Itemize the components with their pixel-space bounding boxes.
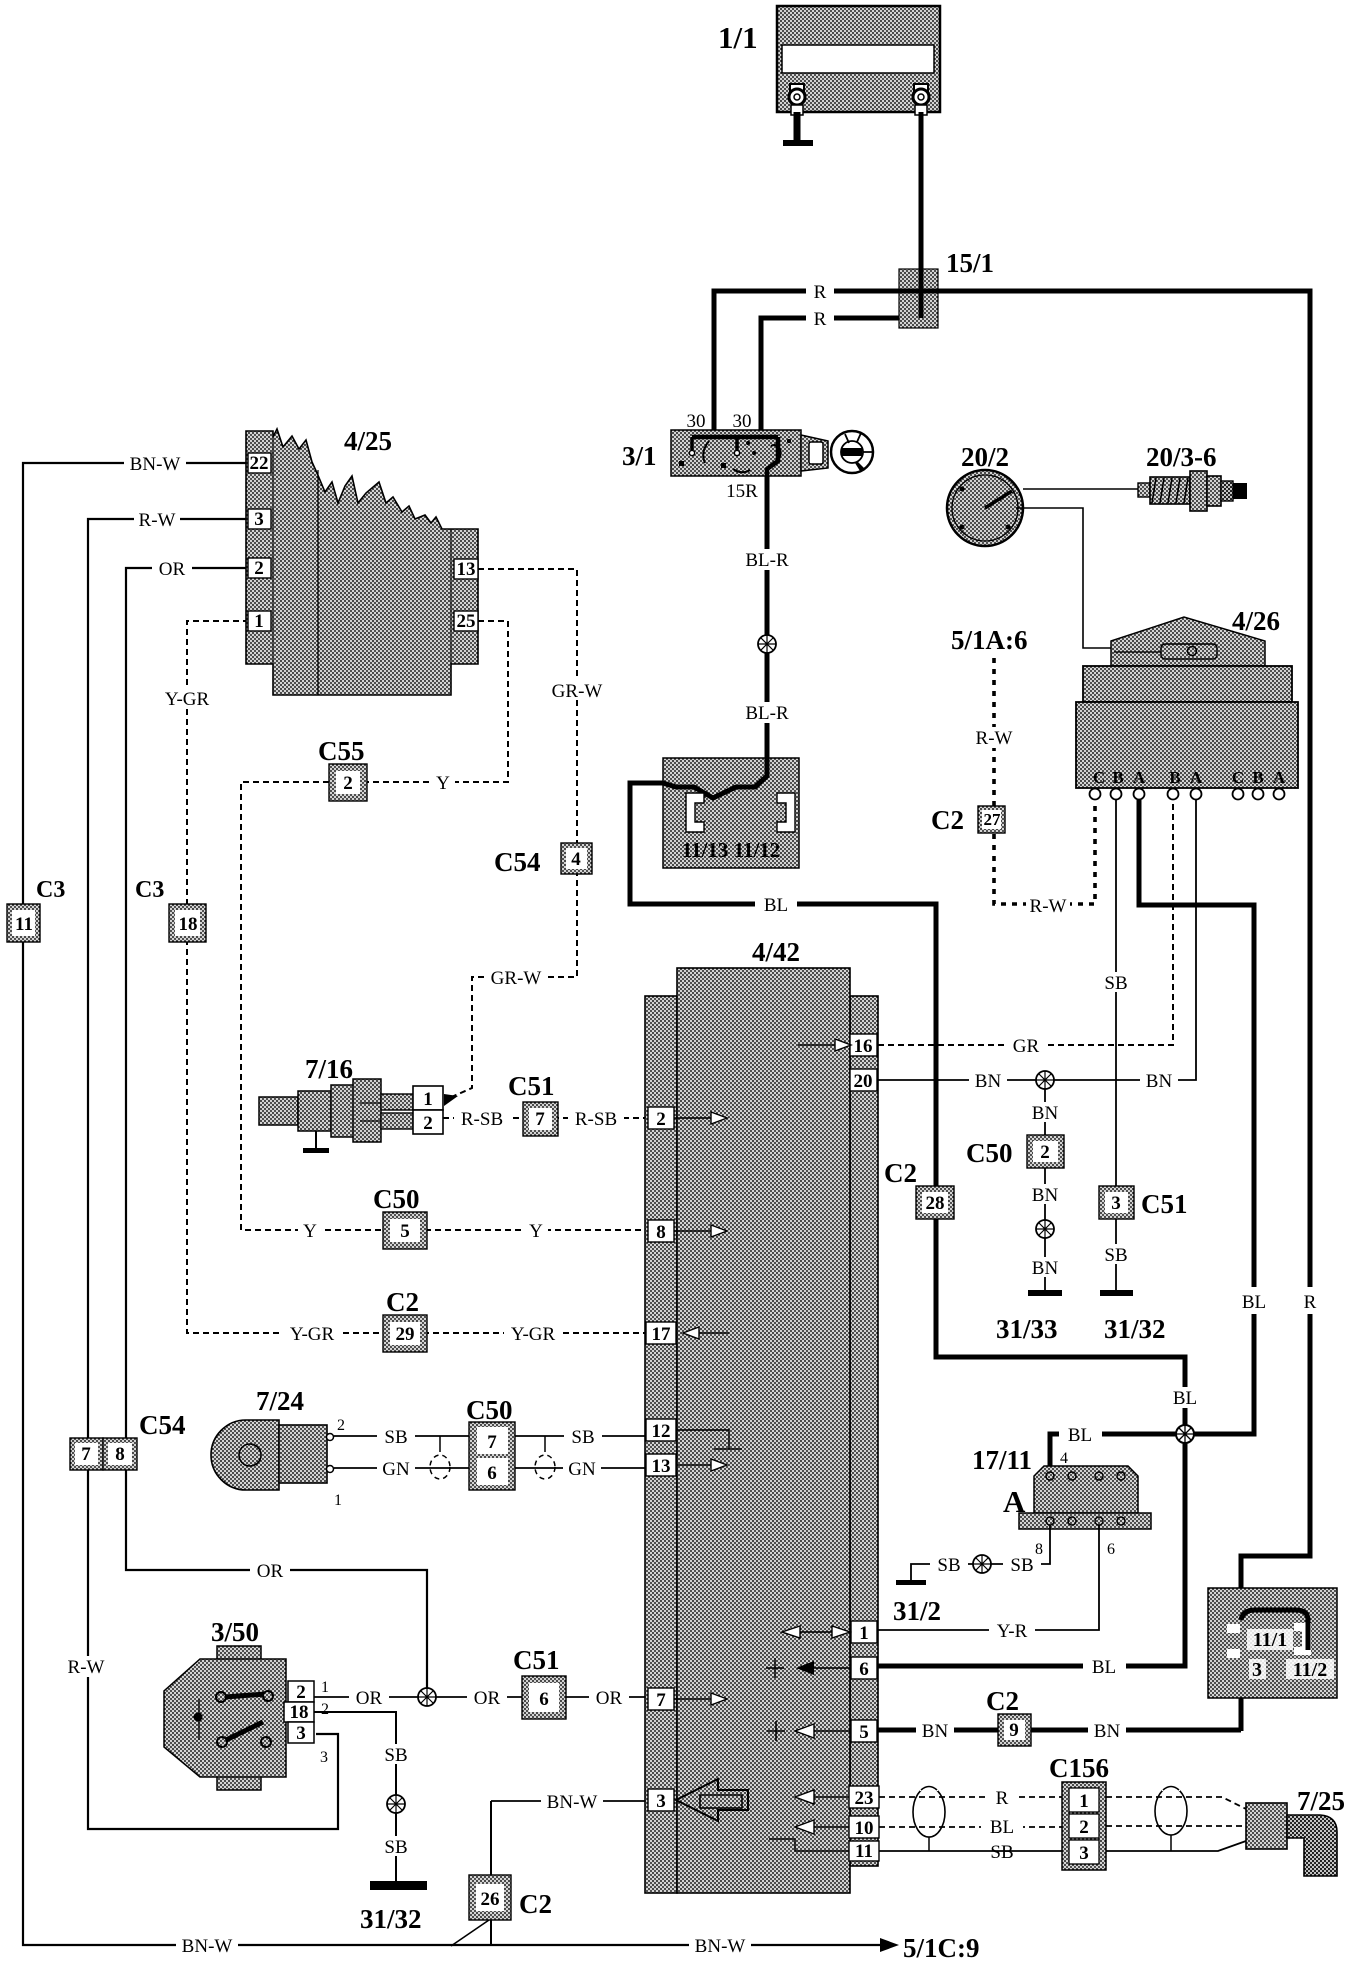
svg-text:1: 1: [321, 1679, 329, 1696]
svg-text:BL: BL: [990, 1817, 1014, 1838]
connector C2 pin 26: [451, 1801, 511, 1946]
wire segments visible through 15/1: [899, 269, 938, 318]
junction crimp on OR: [418, 1688, 436, 1706]
pin 13 of 4/42: [646, 1454, 676, 1477]
svg-text:11: 11: [855, 1841, 873, 1862]
svg-text:30: 30: [687, 411, 706, 432]
wire R dashed from C156 to 7/25: [1106, 1797, 1246, 1809]
svg-text:R-W: R-W: [139, 510, 176, 531]
distributor terminal B: [1111, 789, 1122, 800]
wire BL from junction down to 4/42 pin 6: [878, 1443, 1185, 1666]
value label SB: [983, 1842, 1021, 1863]
svg-text:27: 27: [984, 810, 1002, 829]
value label Y-R: [989, 1620, 1035, 1642]
value label GR-W on horizontal: [487, 967, 545, 989]
key symbol: [831, 431, 873, 473]
svg-text:5: 5: [859, 1722, 869, 1743]
svg-text:31/32: 31/32: [1104, 1314, 1166, 1344]
shield symbol right of C156: [1155, 1783, 1187, 1851]
wire GR-W dashed from 4/25 pin 13 via C54 pin 4 to 7/16 pin 1: [447, 569, 577, 1099]
svg-text:SB: SB: [384, 1837, 407, 1858]
wire BL-R from 3/1 15R to ignition coil: [765, 476, 770, 760]
wire BL thick from distributor terminal A down right side (net BL): [1050, 800, 1254, 1466]
svg-text:4: 4: [571, 849, 581, 870]
connector C54 pin 7: [70, 1438, 103, 1470]
svg-text:SB: SB: [384, 1427, 407, 1448]
svg-text:15R: 15R: [726, 481, 758, 502]
value label BL: [1163, 1387, 1206, 1409]
svg-text:31/2: 31/2: [893, 1596, 941, 1626]
svg-text:R: R: [814, 309, 827, 330]
svg-text:4/26: 4/26: [1232, 606, 1280, 636]
svg-text:C: C: [1232, 768, 1244, 787]
svg-text:OR: OR: [257, 1561, 284, 1582]
svg-text:B: B: [1169, 768, 1180, 787]
block arrow at pin 3: [676, 1779, 748, 1821]
pin 2 of 4/25: [248, 558, 271, 579]
pin 8 of 4/42: [648, 1220, 674, 1243]
suppressor connector 7/25: [1246, 1803, 1337, 1876]
distributor terminal B2: [1168, 789, 1179, 800]
svg-text:OR: OR: [356, 1688, 383, 1709]
svg-text:11: 11: [15, 914, 33, 935]
svg-text:23: 23: [855, 1788, 874, 1809]
value label BN: [969, 1070, 1007, 1092]
svg-text:2: 2: [337, 1417, 345, 1434]
connector C51 pin 7: [523, 1102, 558, 1136]
temperature gauge 20/2: [947, 470, 1023, 546]
double arrow at pin 1: [800, 1631, 832, 1633]
svg-text:Y-GR: Y-GR: [511, 1324, 556, 1345]
pin 12 of 4/42: [646, 1419, 676, 1442]
svg-text:1: 1: [1079, 1791, 1089, 1812]
svg-text:R-SB: R-SB: [575, 1109, 617, 1130]
pin 10 of 4/42: [849, 1816, 879, 1839]
value label GR-W on vertical: [548, 680, 606, 702]
value label BN: [916, 1720, 954, 1742]
ground (battery): [783, 140, 813, 146]
svg-text:22: 22: [250, 453, 269, 474]
svg-text:BN: BN: [975, 1071, 1002, 1092]
svg-text:3: 3: [296, 1723, 306, 1744]
pin 1 of 7/16: [413, 1086, 443, 1110]
pin 6 of 4/42: [851, 1657, 877, 1680]
arrow at pin 8: [674, 1230, 711, 1232]
relay 17/11: [1019, 1466, 1151, 1529]
svg-text:BL: BL: [764, 895, 788, 916]
value label SB: [1003, 1554, 1041, 1576]
ground 31/2: [896, 1580, 926, 1585]
ignition coils 11/13 11/12: [663, 758, 799, 868]
arrow at pin 23: [814, 1796, 849, 1798]
svg-text:2: 2: [1040, 1142, 1050, 1163]
value label SB: [377, 1426, 415, 1448]
svg-text:7/16: 7/16: [305, 1054, 353, 1084]
svg-text:15/1: 15/1: [946, 248, 994, 278]
shield symbol right of C50: [544, 1436, 546, 1452]
value label BL on horizontal to relay: [1059, 1424, 1102, 1446]
svg-text:GR-W: GR-W: [491, 968, 542, 989]
pin 22 of 4/25: [248, 453, 271, 474]
connector C50 pins 7 and 6: [469, 1422, 515, 1490]
pin 2 of 7/16: [413, 1110, 443, 1134]
distributor terminal B3: [1253, 789, 1264, 800]
svg-text:SB: SB: [1104, 1245, 1127, 1266]
value label Y right of C50 5: [524, 1220, 548, 1242]
svg-text:3: 3: [1079, 1843, 1089, 1864]
value label BL on right vertical: [1232, 1287, 1276, 1314]
svg-text:25: 25: [457, 611, 476, 632]
svg-text:8: 8: [115, 1444, 125, 1465]
value label BL-R: [740, 702, 794, 724]
wire SB from relay pin 8 to ground 31/2: [911, 1525, 1050, 1580]
ecu 4/42: [645, 968, 878, 1893]
pin 5 of 4/42: [851, 1720, 877, 1743]
connector C54 pin 8: [103, 1438, 137, 1470]
svg-text:GR: GR: [1013, 1036, 1040, 1057]
svg-text:C50: C50: [966, 1138, 1013, 1168]
pin 16 of 4/42: [850, 1034, 877, 1057]
svg-text:5/1C:9: 5/1C:9: [903, 1933, 980, 1963]
wire GR dashed from 4/42 pin 16 to distributor terminal B2: [878, 800, 1173, 1045]
svg-text:R: R: [996, 1788, 1009, 1809]
svg-text:11/2: 11/2: [1293, 1659, 1327, 1681]
svg-text:26: 26: [481, 1889, 500, 1910]
svg-text:2: 2: [321, 1701, 329, 1718]
value label R: [806, 281, 834, 303]
distributor terminal A: [1134, 789, 1145, 800]
svg-text:6: 6: [859, 1659, 869, 1680]
value label R-SB: [454, 1108, 510, 1130]
svg-text:BN: BN: [922, 1721, 949, 1742]
svg-text:BN: BN: [1094, 1721, 1121, 1742]
wire battery positive to 15/1: [919, 112, 924, 318]
wire R from 15/1 right to right edge and down (net R): [930, 291, 1310, 1731]
svg-text:C2: C2: [986, 1686, 1019, 1716]
wire BL dashed from C156 to 7/25: [1106, 1825, 1246, 1827]
svg-text:17/11: 17/11: [972, 1445, 1032, 1475]
svg-text:9: 9: [1009, 1720, 1019, 1741]
arrow at pin 16: [798, 1044, 835, 1046]
ground 31/32 (left): [370, 1881, 427, 1890]
svg-text:BN: BN: [1032, 1103, 1059, 1124]
value label R-W on vertical: [62, 1656, 110, 1678]
value label R-W: [972, 727, 1016, 749]
svg-text:BN: BN: [1146, 1071, 1173, 1092]
svg-text:OR: OR: [474, 1688, 501, 1709]
value label R on right vertical: [1296, 1287, 1324, 1314]
svg-text:GR-W: GR-W: [552, 681, 603, 702]
svg-text:GN: GN: [382, 1459, 410, 1480]
power stage 7/24: [211, 1420, 334, 1490]
svg-text:6: 6: [487, 1463, 497, 1484]
svg-text:4: 4: [1060, 1450, 1068, 1467]
svg-text:A: A: [1190, 768, 1203, 787]
wire R elbow inside coil unit: [1241, 1610, 1308, 1650]
svg-text:6: 6: [539, 1689, 549, 1710]
wire BN-W from C2 26 to 4/42 pin 3: [491, 1800, 647, 1802]
svg-text:3/50: 3/50: [211, 1617, 259, 1647]
svg-text:8: 8: [656, 1222, 666, 1243]
wire R-SB dashed from 7/16 pin 2 to 4/42 pin 2: [443, 1117, 647, 1119]
pin 25 of 4/25: [454, 611, 478, 632]
svg-text:2: 2: [343, 773, 353, 794]
svg-text:C3: C3: [135, 877, 164, 903]
svg-text:Y: Y: [529, 1221, 543, 1242]
svg-text:1/1: 1/1: [718, 20, 758, 55]
wire R-W from 4/25 pin 3 down to 3/50 pin 3: [88, 519, 338, 1829]
svg-text:BN-W: BN-W: [130, 454, 181, 475]
value label Y near C55: [431, 772, 455, 794]
pin 3 of 3/50: [288, 1722, 314, 1744]
arrow at pin 2: [674, 1117, 711, 1119]
fuse box 15/1: [899, 269, 938, 328]
svg-text:16: 16: [854, 1036, 873, 1057]
symbol at pin 12: [676, 1430, 742, 1449]
svg-text:SB: SB: [1010, 1555, 1033, 1576]
connector C2 pin 29: [383, 1315, 427, 1352]
value label BN-W: [541, 1791, 603, 1813]
connector C3 pin 11: [7, 904, 40, 942]
svg-text:1: 1: [334, 1492, 342, 1509]
shield symbol left of C156: [913, 1783, 945, 1851]
svg-text:SB: SB: [937, 1555, 960, 1576]
connector C50 pin 2: [1027, 1135, 1064, 1168]
wire SB from 3/50 pin 18 to ground 31/32: [314, 1712, 396, 1882]
wire R-W dashed from 5/1A:6 via C2:27 to distributor terminal C: [994, 658, 1095, 904]
connector C156 pins 1 2 3: [1062, 1782, 1106, 1870]
value label SB: [1097, 1244, 1135, 1266]
value label SB: [930, 1554, 968, 1576]
value label BN: [1140, 1070, 1178, 1092]
svg-text:4/42: 4/42: [752, 937, 800, 967]
distributor terminal C3: [1233, 789, 1244, 800]
wire SB from 4/42 pin 11 to C156 pin 3: [879, 1850, 1064, 1852]
value label SB: [377, 1744, 415, 1766]
wire gauge to distributor: [1016, 508, 1114, 648]
wire gauge to spark plug: [1023, 488, 1140, 490]
wire Y dashed from 4/25 pin 25 via C55 to 4/42 pin 8: [241, 621, 647, 1230]
svg-text:BL-R: BL-R: [745, 703, 789, 724]
svg-text:BL: BL: [1068, 1425, 1092, 1446]
svg-text:7: 7: [81, 1444, 91, 1465]
wire OR from 3/50 pin 2 to 4/42 pin 7: [314, 1696, 647, 1698]
wire SB from C156 to 7/25: [1106, 1841, 1246, 1851]
wire GN from 7/24 pin 1 to 4/42 pin 13: [334, 1467, 647, 1469]
shield symbol left of C50: [439, 1436, 441, 1452]
value label GN: [563, 1458, 601, 1480]
svg-text:7: 7: [487, 1432, 497, 1453]
arrow at pin 13: [676, 1464, 711, 1466]
pin 3 of 4/42: [648, 1789, 674, 1812]
value label R-SB: [568, 1108, 624, 1130]
wire SB from distributor terminal B to ground 31/32: [1115, 800, 1117, 1292]
svg-text:SB: SB: [1104, 973, 1127, 994]
junction crimp on SB: [973, 1555, 991, 1573]
battery negative lead: [794, 112, 801, 140]
pin 20 of 4/42: [850, 1069, 877, 1092]
arrow at pin 6: [766, 1658, 851, 1678]
svg-text:Y-R: Y-R: [997, 1621, 1028, 1642]
wire BN-W from 4/25 pin 22 down left side and along bottom to 5/1C:9: [23, 463, 880, 1945]
ignition switch 3/1: [671, 430, 828, 476]
connector C54 pin 4: [561, 843, 592, 874]
svg-text:SB: SB: [384, 1745, 407, 1766]
wire R dashed from 4/42 pin 23 to C156 pin 1: [879, 1796, 1064, 1798]
value label Y-GR: [158, 688, 216, 710]
distributor 4/26: [1076, 617, 1298, 788]
value label BN-W bottom middle: [689, 1935, 751, 1957]
value label SB: [377, 1836, 415, 1858]
svg-text:C50: C50: [466, 1395, 513, 1425]
connector C2 pin 9: [998, 1714, 1031, 1746]
svg-text:3: 3: [320, 1749, 328, 1766]
svg-text:BL: BL: [1092, 1657, 1116, 1678]
svg-text:1: 1: [859, 1623, 869, 1644]
svg-text:BN-W: BN-W: [695, 1936, 746, 1957]
ecu 4/25: [246, 429, 478, 695]
svg-text:C54: C54: [139, 1410, 186, 1440]
wire BL from coil to 4/42 area (net BL): [630, 783, 1185, 1434]
wire BN from 4/42 pin 5 to coil unit: [878, 1728, 1241, 1733]
value label R-W: [1026, 896, 1070, 917]
svg-text:Y: Y: [436, 773, 450, 794]
ground 31/33: [1028, 1290, 1062, 1296]
svg-text:13: 13: [652, 1456, 671, 1477]
svg-text:SB: SB: [571, 1427, 594, 1448]
distributor terminal A2: [1191, 789, 1202, 800]
svg-text:BN-W: BN-W: [547, 1792, 598, 1813]
spark plug 20/3-6: [1138, 471, 1247, 511]
svg-text:C3: C3: [36, 877, 65, 903]
pin 13 of 4/25: [454, 559, 478, 580]
svg-text:BL: BL: [1242, 1292, 1266, 1313]
svg-text:C2: C2: [519, 1889, 552, 1919]
svg-text:C55: C55: [318, 736, 365, 766]
arrow to 5/1C:9: [880, 1938, 899, 1952]
svg-text:20: 20: [854, 1071, 873, 1092]
svg-text:BL: BL: [1173, 1388, 1197, 1409]
pin 18 of 3/50: [284, 1702, 314, 1723]
svg-text:30: 30: [733, 411, 752, 432]
svg-text:Y: Y: [303, 1221, 317, 1242]
wire Y-GR dashed from 4/25 pin 1 to 4/42 pin 17: [187, 621, 647, 1333]
svg-text:R-W: R-W: [976, 728, 1013, 749]
svg-text:12: 12: [652, 1421, 671, 1442]
svg-text:7/24: 7/24: [256, 1386, 304, 1416]
value label R-W: [134, 509, 180, 531]
svg-text:R: R: [1304, 1292, 1317, 1313]
value label Y-GR right of C2 29: [504, 1323, 562, 1345]
value label BL: [981, 1816, 1023, 1838]
svg-text:GN: GN: [568, 1459, 596, 1480]
value label SB: [564, 1426, 602, 1448]
arrow into 7/16 pin 1: [444, 1094, 458, 1106]
value label BL: [1083, 1656, 1126, 1678]
svg-text:31/32: 31/32: [360, 1904, 422, 1934]
svg-text:20/3-6: 20/3-6: [1146, 442, 1217, 472]
pin 7 of 4/42: [648, 1688, 674, 1711]
svg-text:C54: C54: [494, 847, 541, 877]
svg-text:13: 13: [457, 559, 476, 580]
svg-text:C51: C51: [508, 1071, 555, 1101]
value label Y left of C50 5: [298, 1220, 322, 1242]
svg-text:R-W: R-W: [68, 1657, 105, 1678]
pin 11 of 4/42: [849, 1841, 879, 1862]
svg-text:BL-R: BL-R: [745, 550, 789, 571]
value label R: [988, 1787, 1016, 1809]
temperature sensor 7/16: [259, 1079, 413, 1142]
value label OR: [467, 1687, 507, 1709]
svg-text:B: B: [1252, 768, 1263, 787]
svg-text:3: 3: [254, 509, 264, 530]
junction crimp on SB: [387, 1795, 405, 1813]
svg-text:17: 17: [652, 1324, 672, 1345]
connector C51 pin 6: [522, 1676, 566, 1719]
junction crimp BL: [1176, 1425, 1194, 1443]
connector C50 pin 5: [383, 1212, 427, 1249]
svg-text:OR: OR: [596, 1688, 623, 1709]
svg-text:C2: C2: [386, 1287, 419, 1317]
svg-text:2: 2: [1079, 1817, 1089, 1838]
value label BN: [1088, 1720, 1126, 1742]
wire R #2 from 15/1 to 3/1 terminal 30: [761, 318, 921, 437]
svg-text:3: 3: [656, 1791, 666, 1812]
svg-text:1: 1: [423, 1089, 433, 1110]
pin 2 of 3/50: [288, 1681, 314, 1703]
pin 3 of 4/25: [248, 509, 271, 530]
arrow at pin 5: [767, 1721, 851, 1741]
svg-text:C50: C50: [373, 1184, 420, 1214]
svg-text:18: 18: [179, 914, 198, 935]
svg-text:BN-W: BN-W: [182, 1936, 233, 1957]
svg-text:31/33: 31/33: [996, 1314, 1058, 1344]
svg-text:6: 6: [1107, 1541, 1115, 1558]
wire BN from 4/42 pin 20 to distributor terminal A2: [878, 800, 1196, 1080]
value label GN: [377, 1458, 415, 1480]
svg-text:7: 7: [656, 1690, 666, 1711]
svg-text:2: 2: [254, 558, 264, 579]
svg-text:Y-GR: Y-GR: [290, 1324, 335, 1345]
value label OR: [589, 1687, 629, 1709]
value label R: [806, 308, 834, 330]
wire BN from crimp down to ground 31/33: [1044, 1089, 1046, 1290]
pin 2 of 4/42: [648, 1107, 674, 1130]
wire R #1 from 15/1 to 3/1 terminal 30: [714, 291, 905, 437]
wire SB from 7/24 pin 2 to 4/42 pin 12: [334, 1435, 647, 1437]
svg-text:A: A: [1133, 768, 1146, 787]
ignition coil 11/1 11/2 unit: [1208, 1588, 1337, 1698]
svg-text:C156: C156: [1049, 1753, 1109, 1783]
value label SB: [1097, 972, 1135, 994]
svg-text:C51: C51: [1141, 1189, 1188, 1219]
svg-text:BN: BN: [1032, 1185, 1059, 1206]
svg-text:4/25: 4/25: [344, 426, 392, 456]
junction crimp on BN: [1036, 1071, 1054, 1089]
arrow at pin 7: [674, 1698, 711, 1700]
value label BN: [1026, 1257, 1064, 1279]
svg-text:C2: C2: [884, 1158, 917, 1188]
battery 1/1: [777, 6, 940, 115]
value label GR: [1006, 1035, 1046, 1057]
svg-text:R-SB: R-SB: [461, 1109, 503, 1130]
svg-text:5: 5: [400, 1221, 410, 1242]
connector C2 pin 28 on BL wire: [916, 1186, 954, 1219]
wire OR from 4/25 pin 2 down to starter inhibitor circuit: [126, 568, 427, 1697]
pin 17 of 4/42: [646, 1322, 676, 1345]
svg-text:B: B: [1112, 768, 1123, 787]
connector C51 pin 3: [1099, 1186, 1134, 1219]
